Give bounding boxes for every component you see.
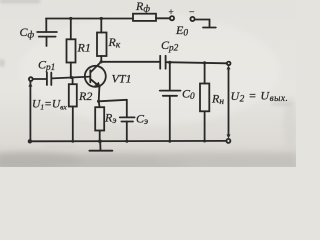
output terminal bottom circle [226, 139, 230, 143]
junction dot rail Cэ [125, 140, 128, 143]
capacitor Cр1 [46, 73, 48, 86]
input terminal circle [29, 77, 33, 81]
resistor R2 [72, 77, 74, 84]
arrowhead U2 top up [227, 65, 231, 69]
resistor Rэ [98, 101, 101, 107]
voltage arrow line U2 [228, 68, 230, 134]
capacitor Cр2 [159, 56, 161, 69]
junction dot emitter node [97, 100, 100, 103]
wire base line [52, 77, 90, 79]
wire left rail U1 [29, 81, 31, 141]
junction dot rail Rн [203, 140, 206, 143]
capacitor C0 [169, 62, 171, 90]
junction dot base node [70, 76, 73, 79]
wire collector output line [101, 61, 160, 63]
resistor Rк [100, 19, 102, 33]
arrowhead U1 up [28, 82, 32, 86]
wire minus terminal to chassis bar [195, 20, 210, 28]
wire input to Cр1 [33, 78, 46, 80]
capacitor Cэ [126, 100, 128, 117]
junction dot left rail bottom [28, 139, 32, 143]
junction dot output C0 [168, 61, 171, 64]
resistor Rф [133, 14, 156, 21]
capacitor Cф [45, 19, 47, 32]
junction dot output Rн [203, 61, 206, 64]
terminal + of E0 [170, 16, 174, 20]
wire emitter horizontal to Cэ [99, 100, 127, 102]
resistor Rн [204, 63, 206, 84]
svg-text:+: + [169, 7, 174, 17]
emitter arrowhead [95, 82, 100, 87]
arrowhead U2 bottom down [227, 134, 231, 138]
chassis bar of E0 minus [203, 27, 216, 29]
junction dot collector node [100, 60, 103, 63]
junction dot rail R1 [69, 17, 72, 20]
svg-text:–: – [189, 6, 195, 16]
svg-text:R2: R2 [78, 89, 92, 103]
wire top rail left segment [46, 18, 133, 20]
svg-text:R1: R1 [77, 41, 91, 55]
junction dot rail C0 [168, 140, 171, 143]
resistor R1 [70, 19, 72, 40]
output terminal top circle [227, 62, 231, 66]
svg-text:VT1: VT1 [112, 72, 132, 86]
junction dot rail Rк [100, 17, 103, 20]
transistor VT1 [85, 66, 106, 87]
junction dot rail Rэ ground [98, 139, 102, 143]
ground chassis stub [99, 141, 101, 150]
wire output line right [166, 62, 227, 63]
junction dot rail R2 [71, 140, 74, 143]
terminal - of E0 [190, 17, 194, 21]
wire Rф to plus terminal [156, 17, 170, 19]
wire bottom rail [30, 140, 226, 142]
